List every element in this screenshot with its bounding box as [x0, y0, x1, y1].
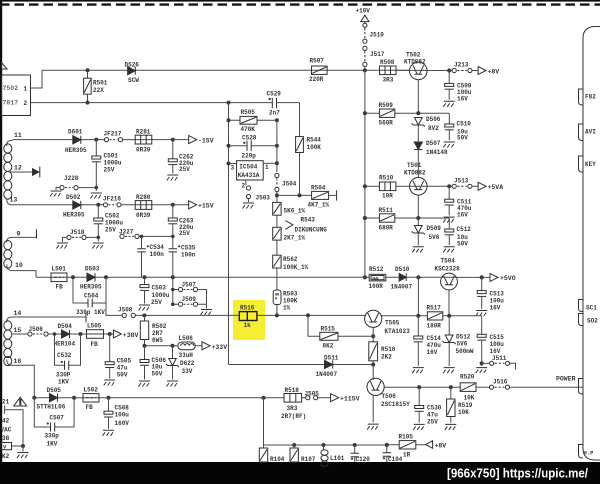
svg-text:0R39: 0R39: [136, 147, 151, 154]
zener D509 5V6: [412, 226, 425, 235]
wire J511 right hook: [510, 363, 516, 369]
transistor T505 KTA1023: [365, 310, 382, 327]
jumper J510: [363, 23, 367, 27]
wire J517 to rail: [364, 67, 366, 71]
svg-text:10R: 10R: [382, 193, 393, 200]
svg-text:KA431A: KA431A: [238, 172, 260, 179]
wire R520 to J516: [476, 386, 489, 388]
node junction D622 top: [171, 344, 175, 348]
node junction C530 top: [417, 385, 421, 389]
inductor L101: [323, 445, 325, 450]
resistor R520 10K: [460, 383, 476, 392]
svg-text:C529: C529: [267, 91, 282, 98]
pin 2 stub: [245, 180, 247, 185]
output arrow +38V: [113, 330, 121, 338]
svg-text:680R: 680R: [379, 224, 394, 231]
capacitor C512 10u 50V: [448, 218, 450, 229]
svg-text:1k: 1k: [244, 322, 252, 329]
resistor R516 2K2: [372, 336, 374, 342]
resistor 5K6_1%: [273, 202, 281, 215]
ground C506: [139, 381, 151, 387]
wire main rail y277.3: [36, 276, 441, 278]
inductor L506 33uH: [178, 342, 195, 350]
svg-text:C515: C515: [490, 334, 505, 341]
zener D506 8V2: [412, 118, 425, 127]
svg-text:R543: R543: [301, 217, 316, 224]
capacitor C503 1000u 25V: [144, 277, 146, 284]
svg-text:C534: C534: [150, 244, 165, 251]
node junction D503 left: [71, 275, 75, 279]
ground T506 emitter: [367, 424, 379, 430]
wire J509 stubs: [173, 304, 207, 308]
node junction D509 top: [416, 216, 420, 220]
svg-text:2n7: 2n7: [269, 110, 280, 117]
wire pin10 lead: [12, 271, 36, 278]
capacitor C513 100u 16V: [481, 277, 483, 290]
svg-text:25V: 25V: [179, 166, 190, 173]
svg-text:50V: 50V: [152, 370, 163, 377]
corner arrow marker: [2, 63, 8, 70]
wire -15V row y139.6: [12, 139, 188, 141]
svg-text:R515: R515: [321, 325, 336, 332]
node junction VAC net: [21, 444, 25, 448]
svg-text:1N4007: 1N4007: [316, 371, 338, 378]
svg-text:1N4148: 1N4148: [426, 149, 448, 156]
capacitor C530 47u 25V: [418, 387, 420, 405]
svg-text:C104: C104: [388, 456, 403, 463]
transistor T502 KTD882: [410, 62, 428, 80]
node junction rail/C529 feed: [227, 101, 231, 105]
wire +15V row y204.8: [12, 204, 188, 206]
svg-text:+38V: +38V: [123, 332, 139, 339]
svg-text:16: 16: [14, 358, 22, 365]
wire pin2 rail y102.6: [31, 102, 273, 104]
ground C502: [92, 243, 104, 249]
svg-text:SO2: SO2: [587, 318, 598, 325]
node junction C507 left: [32, 396, 36, 400]
capacitor C263 220u 25V: [172, 205, 174, 218]
svg-text:R505: R505: [241, 109, 256, 116]
diode D507 1N4148: [414, 142, 422, 150]
svg-text:C528: C528: [242, 134, 257, 141]
svg-text:R519: R519: [458, 402, 473, 409]
svg-text:100R: 100R: [369, 283, 384, 290]
capacitor C120: [354, 445, 356, 453]
resistor R512 0W5 100R: [369, 274, 386, 281]
svg-text:IC504: IC504: [239, 164, 257, 171]
svg-text:13: 13: [10, 197, 18, 204]
wire T501 to J513: [427, 185, 452, 187]
svg-text:25V: 25V: [179, 230, 190, 237]
jumper J511: [482, 362, 490, 364]
svg-text:DIKUNCUNG: DIKUNCUNG: [295, 227, 328, 234]
svg-text:J518: J518: [70, 229, 85, 236]
ground D509: [412, 247, 424, 253]
svg-text:T502: T502: [406, 52, 421, 59]
output arrow +115V: [331, 394, 339, 402]
svg-text:25V: 25V: [105, 227, 116, 234]
transformer winding W1 pins 11-13: [7, 140, 13, 205]
node junction D511 right: [371, 363, 375, 367]
resistor R280 0R39: [135, 201, 152, 210]
node junction D503 right: [104, 275, 108, 279]
svg-text:T501: T501: [407, 162, 422, 169]
svg-text:+10V: +10V: [356, 8, 371, 15]
svg-text:220R: 220R: [309, 76, 324, 83]
svg-text:330P: 330P: [56, 371, 71, 378]
svg-text:H.P: H.P: [584, 450, 595, 457]
node junction R519 top: [449, 385, 453, 389]
node junction C513 top: [480, 275, 484, 279]
svg-text:220p: 220p: [242, 153, 257, 160]
wire base rail y315.4: [135, 314, 366, 316]
page left border bar: [0, 0, 2, 484]
svg-text:KTD882: KTD882: [404, 170, 426, 177]
svg-text:J505: J505: [305, 390, 320, 397]
svg-text:J511: J511: [492, 355, 507, 362]
ground R519: [445, 424, 457, 430]
svg-text:5K6_1%: 5K6_1%: [284, 208, 306, 215]
svg-text:180R: 180R: [427, 322, 442, 329]
svg-text:1KV: 1KV: [47, 440, 58, 447]
svg-text:R516: R516: [381, 346, 396, 353]
svg-text:KEY: KEY: [585, 161, 596, 168]
diode D504 HER104: [62, 330, 70, 338]
resistor R515 8K2: [308, 315, 373, 336]
capacitor C502 1000u 25V: [97, 205, 99, 218]
pin 3 stub: [229, 163, 237, 165]
svg-text:14: 14: [14, 310, 22, 317]
svg-text:J513: J513: [454, 178, 469, 185]
ground C515: [476, 368, 488, 374]
resistor R501 22X: [87, 70, 89, 102]
svg-text:L505: L505: [87, 323, 102, 330]
wire R511 row y218: [365, 217, 449, 219]
capacitor C511 470u 16V: [448, 186, 450, 199]
svg-text:+8V: +8V: [435, 442, 447, 449]
resistor R511 680R: [379, 214, 394, 222]
svg-text:38: 38: [2, 435, 10, 442]
svg-text:3: 3: [231, 164, 235, 171]
ground D512: [443, 368, 455, 374]
resistor R104: [263, 445, 265, 448]
svg-text:D526: D526: [125, 61, 140, 68]
node junction bus riser: [262, 396, 266, 400]
svg-text:HER305: HER305: [65, 147, 87, 154]
connector tab H.P: [579, 445, 584, 459]
svg-text:T506: T506: [382, 393, 397, 400]
svg-text:C512: C512: [457, 226, 472, 233]
node junction T505 emitter: [371, 334, 375, 338]
svg-text:560R: 560R: [379, 120, 394, 127]
note R543 DIKUNCUNG: [285, 221, 293, 230]
shunt regulator IC504 KA431A: [237, 161, 264, 180]
page top border line: [0, 0, 600, 2]
svg-text:J213: J213: [454, 62, 469, 69]
node junction R515 branch: [306, 313, 310, 317]
svg-text:+5VA: +5VA: [488, 184, 504, 191]
wire C535 column below rail: [172, 277, 174, 304]
svg-text:R105: R105: [399, 433, 414, 440]
resistor R281 0R39: [135, 135, 152, 144]
svg-text:3R3: 3R3: [383, 77, 394, 84]
svg-text:100n: 100n: [150, 251, 165, 258]
node junction net B R505: [275, 118, 279, 122]
svg-text:R281: R281: [136, 129, 151, 136]
wire D505 row y397.7: [34, 397, 330, 399]
svg-text:C120: C120: [356, 456, 371, 463]
connector tab F82: [579, 89, 584, 105]
svg-text:R504: R504: [311, 184, 326, 191]
ground J509: [201, 310, 213, 316]
svg-text:L502: L502: [84, 386, 99, 393]
svg-text:D511: D511: [324, 355, 339, 362]
ground C510: [443, 142, 455, 148]
resistor R517 180R: [427, 312, 442, 320]
svg-text:HER104: HER104: [54, 340, 76, 347]
node junction C506 top: [143, 344, 147, 348]
node junction T504 base branch: [416, 275, 420, 279]
svg-text:16V: 16V: [457, 211, 468, 218]
svg-text:1%: 1%: [283, 305, 291, 312]
node junction C535 rail: [171, 275, 175, 279]
wire bottom bus y445: [264, 444, 387, 446]
inductor L505 FB: [87, 330, 104, 339]
node junction R512 left: [363, 275, 367, 279]
resistor R510 10R: [379, 182, 396, 191]
svg-text:C505: C505: [117, 357, 132, 364]
node junction chain bottom rail: [275, 313, 279, 317]
svg-text:5V6: 5V6: [457, 341, 468, 348]
svg-text:25V: 25V: [427, 419, 438, 426]
svg-text:R520: R520: [460, 374, 475, 381]
transistor T504 KSC2328: [441, 273, 458, 290]
wire J228 right to C501 column: [78, 187, 96, 189]
jumper J505: [306, 396, 310, 400]
svg-text:J510: J510: [370, 32, 385, 39]
svg-text:22X: 22X: [93, 87, 104, 94]
svg-text:R503: R503: [283, 290, 298, 297]
node junction R501 top: [86, 68, 90, 72]
wire J507 left stub: [173, 289, 179, 291]
svg-text:R508: R508: [380, 59, 395, 66]
svg-text:D509: D509: [427, 225, 442, 232]
wire J513 to arrow: [472, 185, 478, 187]
node junction R501 bottom: [86, 101, 90, 105]
jumper J513: [452, 184, 456, 188]
node junction chain top: [276, 192, 278, 203]
jumper J517: [363, 46, 367, 50]
svg-text:R501: R501: [93, 80, 108, 87]
svg-text:33uH: 33uH: [179, 352, 194, 359]
capacitor C509 100u 16V: [448, 71, 450, 84]
svg-text:C530: C530: [427, 405, 442, 412]
capacitor C514 470u 16V: [417, 316, 419, 336]
svg-text:R562: R562: [283, 256, 298, 263]
jumper J518: [67, 235, 71, 239]
wire R509 row y113.2: [365, 112, 449, 114]
connector tab KEY: [579, 156, 584, 172]
wire J507 right hook: [198, 290, 207, 305]
svg-text:J509: J509: [182, 296, 197, 303]
warning triangle: [14, 397, 27, 406]
wire R510 row y186.3: [365, 185, 410, 187]
ground J228 left: [56, 188, 60, 190]
connector tab SC1: [579, 300, 584, 312]
ground C511: [443, 217, 455, 223]
svg-text:C514: C514: [427, 335, 442, 342]
jumper J508: [122, 313, 126, 317]
capacitor C506 10u 50V: [144, 346, 146, 360]
svg-text:330p: 330p: [45, 432, 60, 439]
jumper J506: [28, 332, 32, 336]
svg-text:JF216: JF216: [103, 196, 121, 203]
wire R105 row y444.7: [387, 444, 426, 446]
svg-text:470u: 470u: [427, 342, 442, 349]
svg-text:J507: J507: [182, 281, 197, 288]
node junction R502 top: [143, 313, 147, 317]
node junction C508 top: [107, 396, 111, 400]
capacitor C510 10u 50V: [448, 113, 450, 124]
svg-text:D510: D510: [395, 266, 410, 273]
ground J503: [248, 199, 250, 202]
node junction C505 top: [108, 332, 112, 336]
node junction +10V rail: [363, 68, 367, 72]
svg-text:9: 9: [17, 231, 21, 238]
resistor R107: [293, 445, 295, 448]
wire D511 row y364.5: [229, 364, 374, 366]
svg-text:C507: C507: [50, 414, 65, 421]
svg-text:L506: L506: [179, 335, 194, 342]
node junction R510 left: [363, 184, 367, 188]
svg-text:1KV: 1KV: [58, 378, 69, 385]
wire J518 right: [86, 236, 98, 238]
svg-text:FB: FB: [56, 284, 64, 291]
svg-text:R502: R502: [152, 323, 167, 330]
wire VAC box net: [5, 406, 23, 447]
node junction C120 top: [353, 443, 357, 447]
svg-text:C513: C513: [490, 290, 505, 297]
svg-text:2: 2: [242, 183, 246, 190]
output arrow +15V: [189, 201, 197, 209]
svg-text:T504: T504: [441, 257, 456, 264]
svg-text:R507: R507: [310, 58, 325, 65]
wire main vertical x365: [364, 70, 366, 277]
svg-text:T505: T505: [385, 319, 400, 326]
svg-text:100K: 100K: [283, 298, 298, 305]
svg-text:1000u: 1000u: [152, 292, 170, 299]
diode D503 HER305: [87, 273, 95, 281]
output arrow +5VA: [478, 182, 486, 190]
svg-text:F82: F82: [585, 94, 596, 101]
wire net B vertical: [276, 120, 278, 172]
jumper J227: [120, 234, 124, 238]
svg-text:21: 21: [2, 399, 10, 406]
jumper J504: [275, 173, 279, 177]
svg-text:[966x750] https://upic.me/: [966x750] https://upic.me/: [447, 466, 588, 481]
svg-text:1000u: 1000u: [105, 220, 123, 227]
svg-text:+15V: +15V: [198, 203, 214, 210]
svg-text:100u: 100u: [490, 341, 505, 348]
svg-text:D506: D506: [426, 116, 441, 123]
capacitor C504 330p 1KV bridge: [73, 277, 106, 303]
svg-text:+5VO: +5VO: [500, 275, 516, 282]
svg-text:2SC1815Y: 2SC1815Y: [381, 401, 410, 408]
page top dashed border: [0, 3, 600, 5]
svg-text:1: 1: [265, 164, 269, 171]
jumper J503: [246, 186, 250, 190]
svg-text:R544: R544: [307, 137, 322, 144]
svg-text:-15V: -15V: [198, 138, 214, 145]
node junction C263 top: [171, 203, 175, 207]
svg-text:100K: 100K: [307, 144, 322, 151]
svg-text:R517: R517: [427, 305, 442, 312]
svg-text:C535: C535: [181, 245, 196, 252]
output arrow +5VO: [490, 273, 498, 281]
wire R517 row y315.8: [418, 315, 481, 317]
svg-text:33V: 33V: [182, 368, 193, 375]
svg-text:2R7: 2R7: [152, 330, 163, 337]
svg-text:KTA1023: KTA1023: [385, 328, 411, 335]
wire +38V row y334: [12, 333, 113, 335]
svg-text:D503: D503: [85, 266, 100, 273]
wire pin9 stub to terminal: [12, 236, 36, 238]
wire T504 to +5VO: [457, 276, 489, 278]
svg-text:50V: 50V: [117, 371, 128, 378]
svg-text:15: 15: [14, 327, 22, 334]
svg-text:16V: 16V: [490, 304, 501, 311]
svg-text:HER305: HER305: [63, 212, 85, 219]
zener D512 5V6 500mW: [448, 316, 450, 335]
capacitor C507 330p 1KV bridge: [34, 398, 74, 427]
ground D622: [167, 381, 179, 387]
svg-text:R280: R280: [136, 194, 151, 201]
svg-text:C502: C502: [105, 213, 120, 220]
svg-text:16V: 16V: [490, 348, 501, 355]
ground VAC net: [22, 446, 24, 452]
wire J227 right to columns: [139, 235, 173, 237]
svg-text:+115V: +115V: [340, 396, 360, 403]
resistor R519 10K: [450, 387, 452, 399]
wire pin12 stub: [9, 171, 33, 173]
capacitor C529 2n7: [272, 98, 276, 108]
svg-text:D512: D512: [456, 333, 471, 340]
node junction C514 top: [416, 314, 420, 318]
diode D511 1N4007: [325, 360, 333, 368]
svg-text:0W5: 0W5: [152, 337, 163, 344]
transformer winding W2 pins 9-10: [7, 237, 13, 270]
capacitor C104: [386, 445, 388, 453]
wire R508 to T502: [396, 69, 410, 71]
svg-text:L101: L101: [330, 455, 345, 462]
wire C529 down to R544: [299, 103, 301, 137]
output arrow -15V: [189, 136, 197, 144]
connector tab POWER: [579, 379, 584, 395]
resistor R509 560R: [379, 109, 394, 117]
diode D502 HER305: [73, 201, 81, 209]
node junction C104/R105: [385, 443, 389, 447]
output arrow +8V (left pointing): [426, 441, 433, 449]
optocoupler IC 7502 PC817: [2, 75, 31, 116]
node junction R511 left: [363, 216, 367, 220]
resistor R105 1R: [399, 441, 416, 449]
capacitor C528 220p: [229, 145, 277, 147]
svg-text:D505: D505: [47, 387, 62, 394]
capacitor C505 47u 50V: [109, 334, 111, 362]
svg-text:4K7_1%: 4K7_1%: [308, 202, 330, 209]
svg-text:J503: J503: [256, 195, 271, 202]
capacitor C532 330P 1KV bridge: [55, 334, 81, 365]
